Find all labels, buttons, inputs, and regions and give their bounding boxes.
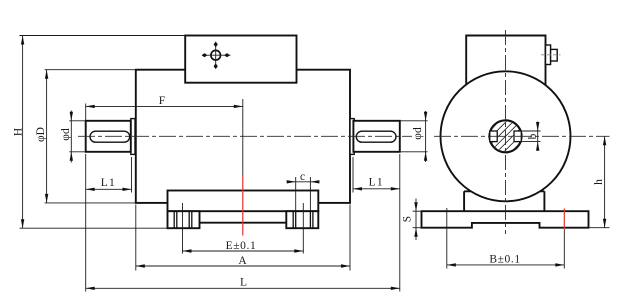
connector symbol (circle with cross and four diamonds) <box>202 42 231 70</box>
dimension H <box>13 36 186 229</box>
dimension phid right <box>400 111 428 162</box>
dimension L1 right <box>353 157 400 193</box>
shaft hub with hatching <box>484 93 528 179</box>
dimension B +/-0.1 <box>447 254 565 267</box>
right shaft <box>353 121 399 152</box>
svg-text:E±0.1: E±0.1 <box>226 240 257 252</box>
dimension F <box>86 95 243 121</box>
main body <box>136 70 350 203</box>
bolt center line left (end view) <box>446 208 448 269</box>
left shaft keyway <box>90 131 130 142</box>
left shaft <box>86 121 131 152</box>
svg-text:L1: L1 <box>369 177 384 189</box>
svg-text:h: h <box>593 179 605 185</box>
dimension b <box>521 122 540 152</box>
dimension phid left <box>60 111 86 163</box>
left foot <box>168 211 200 228</box>
left bolt center line <box>182 203 184 254</box>
connector fitting on box <box>541 45 561 65</box>
dimension S <box>402 199 422 241</box>
dimension L1 left <box>86 157 132 193</box>
hub keyway left <box>490 131 497 142</box>
main circular body (end view) <box>441 71 571 201</box>
base middle bar bottom <box>200 222 287 224</box>
vertical center line of body (black above, red below) <box>242 99 244 236</box>
svg-text:L1: L1 <box>101 177 116 189</box>
svg-text:B±0.1: B±0.1 <box>489 254 520 266</box>
dimension h <box>589 136 610 227</box>
svg-text:φd: φd <box>412 127 424 140</box>
base plate with bottom notch <box>422 211 589 228</box>
mounting plate <box>168 191 319 212</box>
svg-text:b: b <box>527 133 539 139</box>
dimension phiD <box>35 70 136 203</box>
saddle sides <box>464 191 544 211</box>
right shaft flange <box>350 119 354 155</box>
bolt center line right (end view, red in plate) <box>563 209 565 269</box>
horizontal center line (end view) <box>434 135 610 137</box>
right foot <box>286 211 318 228</box>
svg-text:H: H <box>13 128 25 136</box>
connector box on top <box>185 36 296 83</box>
left shaft flange <box>131 119 135 155</box>
svg-text:A: A <box>238 255 247 267</box>
svg-text:L: L <box>240 276 247 288</box>
vertical center line (end view) <box>505 30 507 234</box>
svg-text:F: F <box>159 95 165 107</box>
svg-text:S: S <box>402 216 414 222</box>
dimension L <box>86 154 400 292</box>
svg-text:φd: φd <box>60 128 72 141</box>
svg-text:c: c <box>300 171 305 183</box>
svg-text:φD: φD <box>35 127 47 142</box>
saddle top edges <box>464 190 544 192</box>
dimension A <box>136 205 350 271</box>
hub keyway right <box>514 131 521 142</box>
dimension c <box>287 171 320 211</box>
horizontal center line (left view) <box>78 135 412 137</box>
right shaft keyway <box>356 131 396 142</box>
right bolt center line <box>302 203 304 254</box>
connector housing box (end view) <box>466 36 545 96</box>
dimension E +/-0.1 <box>183 240 304 253</box>
